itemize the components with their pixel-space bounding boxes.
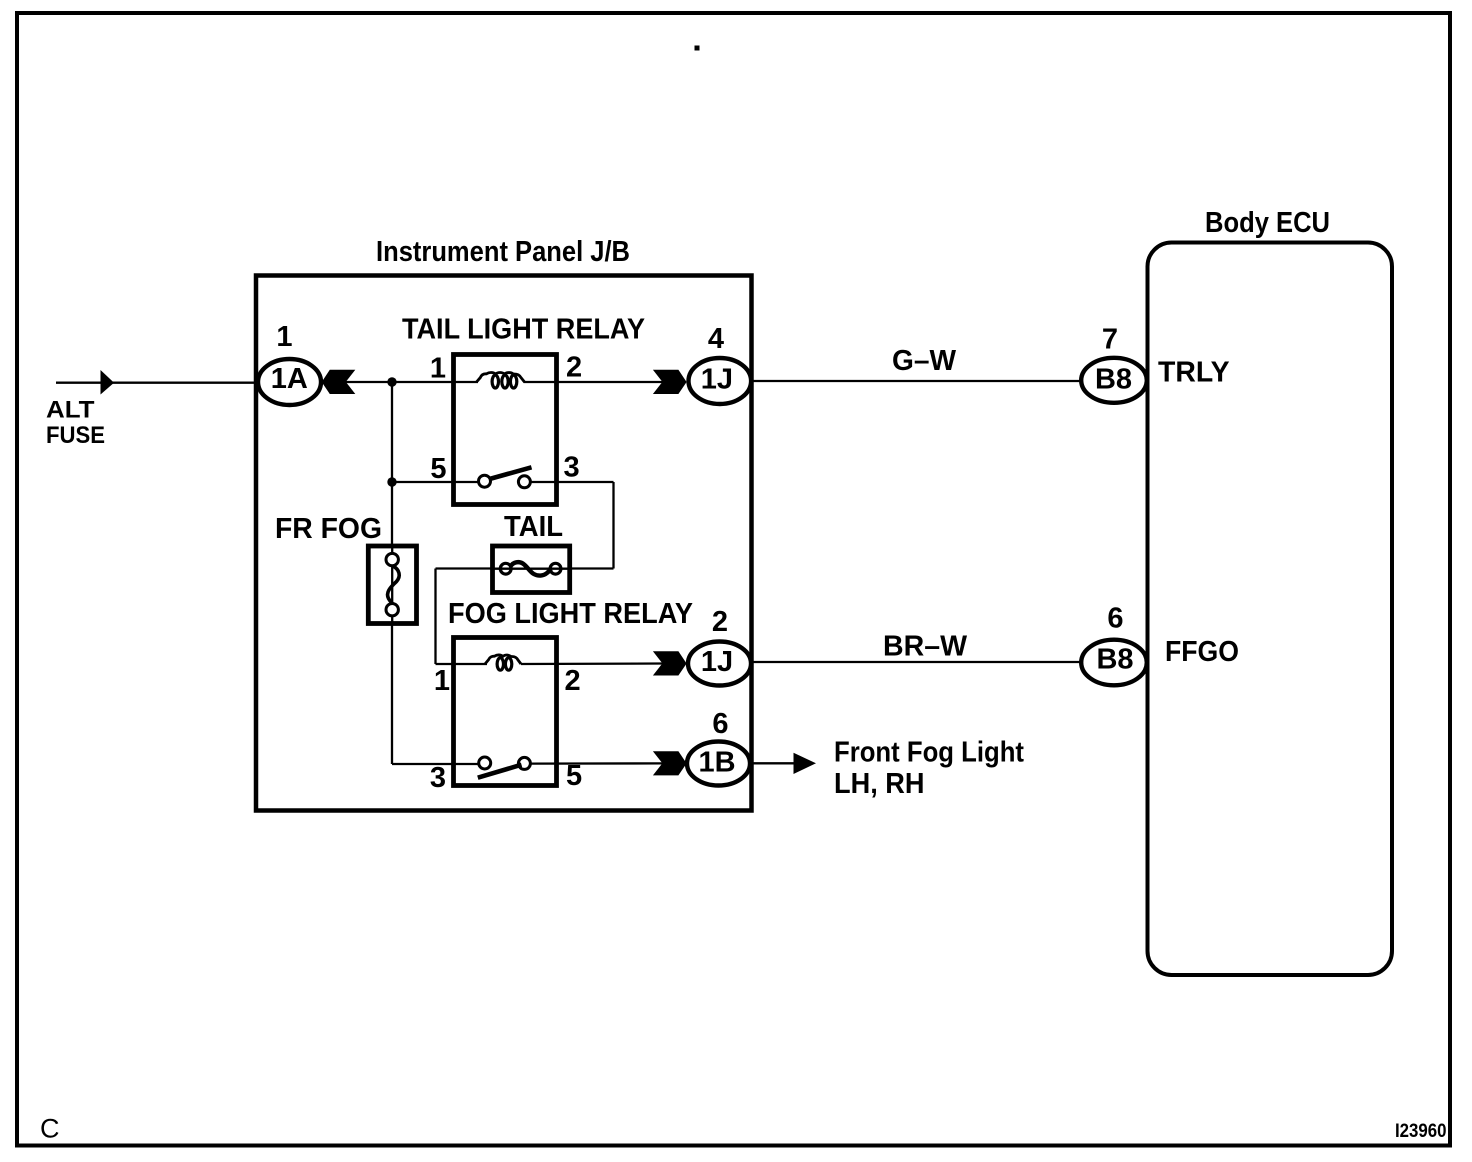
- svg-text:6: 6: [1107, 603, 1123, 635]
- svg-text:TAIL: TAIL: [504, 511, 563, 543]
- svg-text:G–W: G–W: [892, 345, 956, 377]
- svg-text:1A: 1A: [271, 363, 308, 395]
- svg-text:1J: 1J: [701, 646, 733, 678]
- svg-text:C: C: [40, 1114, 60, 1144]
- svg-text:4: 4: [708, 323, 724, 355]
- svg-text:2: 2: [712, 606, 728, 638]
- svg-text:7: 7: [1102, 324, 1118, 356]
- svg-text:Instrument Panel J/B: Instrument Panel J/B: [376, 236, 630, 268]
- svg-text:BR–W: BR–W: [883, 631, 967, 663]
- svg-text:Body ECU: Body ECU: [1205, 207, 1330, 239]
- svg-text:1B: 1B: [698, 747, 735, 779]
- svg-text:1: 1: [434, 665, 450, 697]
- svg-text:B8: B8: [1095, 364, 1132, 396]
- svg-text:5: 5: [566, 760, 582, 792]
- svg-text:FR FOG: FR FOG: [275, 513, 382, 545]
- svg-text:6: 6: [712, 708, 728, 740]
- svg-text:FOG LIGHT RELAY: FOG LIGHT RELAY: [448, 598, 693, 630]
- svg-text:1: 1: [430, 353, 446, 385]
- svg-text:I23960: I23960: [1395, 1121, 1447, 1142]
- svg-text:2: 2: [566, 352, 582, 384]
- svg-text:3: 3: [430, 762, 446, 794]
- svg-text:Front Fog Light: Front Fog Light: [834, 737, 1024, 769]
- svg-text:1J: 1J: [701, 364, 733, 396]
- svg-text:FFGO: FFGO: [1165, 636, 1239, 668]
- svg-text:TAIL LIGHT RELAY: TAIL LIGHT RELAY: [402, 314, 645, 346]
- svg-text:2: 2: [565, 665, 581, 697]
- svg-text:ALT: ALT: [46, 397, 95, 424]
- svg-text:LH, RH: LH, RH: [834, 768, 925, 800]
- svg-text:3: 3: [564, 452, 580, 484]
- svg-text:FUSE: FUSE: [46, 422, 105, 449]
- svg-text:TRLY: TRLY: [1158, 357, 1230, 389]
- svg-text:5: 5: [430, 453, 446, 485]
- svg-text:B8: B8: [1096, 644, 1133, 676]
- svg-text:1: 1: [276, 321, 292, 353]
